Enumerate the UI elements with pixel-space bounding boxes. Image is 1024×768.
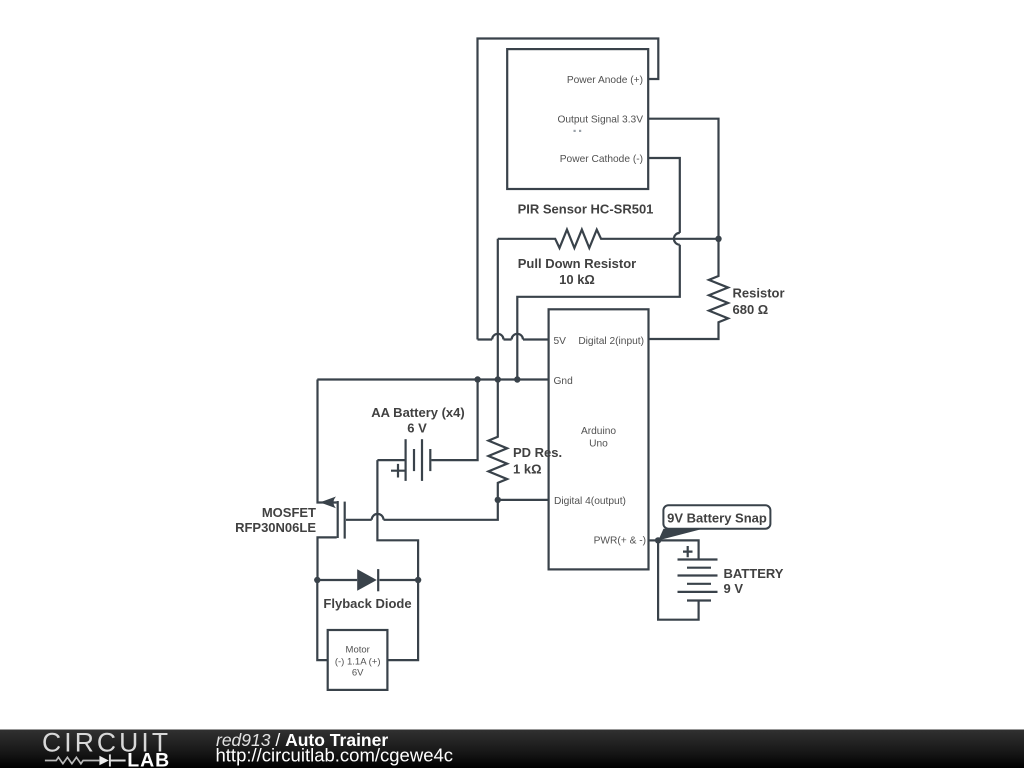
node flyback left [314,577,320,583]
svg-text:6 V: 6 V [407,421,427,436]
wire 5V row with hops [478,334,549,340]
wire Gnd row [317,378,548,380]
plus sign 9V battery [683,546,693,557]
node gnd/cathode junction [514,376,520,382]
svg-text:9 V: 9 V [724,581,744,596]
pin Power Cathode (-) [560,154,643,165]
node flyback right [415,577,421,583]
svg-text:1 kΩ: 1 kΩ [513,462,542,477]
svg-text:Power Cathode (-): Power Cathode (-) [560,154,643,165]
label BATTERY 9V [724,566,784,596]
svg-text:BATTERY: BATTERY [724,566,784,581]
artifact dots under output signal [574,130,582,132]
wire motor left leg [317,580,327,660]
svg-text:Arduino: Arduino [581,426,616,437]
wire Digital 4 to node [498,499,549,501]
resistor R pulldown 10k (horizontal) [498,230,719,248]
logo LAB [127,749,170,768]
callout 9V Battery Snap [658,505,770,540]
label Pull Down Resistor [518,256,636,287]
svg-text:PIR Sensor HC-SR501: PIR Sensor HC-SR501 [518,201,654,216]
svg-text:Power Anode (+): Power Anode (+) [567,75,643,86]
logo CIRCUIT [42,728,171,758]
pin Output Signal 3.3V [557,115,643,126]
svg-text:Motor: Motor [346,645,370,656]
label Flyback Diode [323,596,411,611]
label PIR Sensor HC-SR501 [518,201,654,216]
svg-text:Gnd: Gnd [554,376,574,387]
svg-text:AA Battery (x4): AA Battery (x4) [371,405,464,420]
svg-text:LAB: LAB [127,749,170,768]
wire Power Cathode to Gnd rail [517,158,680,380]
pin Digital 4(output) [554,496,626,507]
wire pulldown left leg down to Gnd [497,239,499,380]
plus sign AA battery [391,464,405,478]
label Resistor 680 [733,286,785,318]
footer title [216,730,454,765]
resistor R2 PD 1k (vertical) [488,380,507,500]
svg-text:6V: 6V [352,667,364,678]
pin Power Anode (+) [567,75,643,86]
label AA Battery [371,405,464,436]
node PWR junction [655,537,661,543]
svg-text:(-) 1.1A (+): (-) 1.1A (+) [335,657,381,668]
transistor Q1 MOSFET RFP30N06LE [318,380,345,581]
label Motor [335,645,381,679]
svg-text:680 Ω: 680 Ω [733,302,769,317]
svg-text:Flyback Diode: Flyback Diode [323,596,411,611]
svg-text:Output Signal 3.3V: Output Signal 3.3V [557,115,643,126]
node digital4/gate junction [495,497,501,503]
label MOSFET [235,505,316,535]
motor M1 box [328,630,388,690]
node junction output/pulldown [715,236,721,242]
wire PWR pin to node [649,539,659,541]
pin 5V [554,336,567,347]
svg-text:PD Res.: PD Res. [513,445,562,460]
wire Output Signal to node [648,119,718,239]
pin Gnd [554,376,574,387]
resistor R1 680 (vertical) [649,239,729,339]
svg-text:5V: 5V [554,336,567,347]
svg-text:RFP30N06LE: RFP30N06LE [235,520,316,535]
wire top loop from PIR Power Anode to left rail [478,39,659,340]
label Arduino Uno [581,426,616,449]
Arduino Uno box [549,309,649,569]
battery V2 9V [658,540,717,619]
svg-text:Uno: Uno [589,438,608,449]
svg-text:Resistor: Resistor [733,286,785,301]
svg-text:MOSFET: MOSFET [262,505,316,520]
PIR sensor box [507,49,648,189]
node gnd/pulldown junction [495,376,501,382]
svg-text:9V Battery Snap: 9V Battery Snap [667,511,767,526]
pin Digital 2(input) [578,336,644,347]
wire gate from node with hop over battery wire [346,500,498,520]
svg-text:Pull Down Resistor: Pull Down Resistor [518,256,636,271]
label PD Res 1k [513,445,562,477]
svg-text:Digital 2(input): Digital 2(input) [578,336,644,347]
battery V1 AA x4 [377,380,477,481]
svg-text:Digital 4(output): Digital 4(output) [554,496,626,507]
diode D1 flyback [317,569,418,591]
footer bar [0,730,1024,768]
node gnd/battery junction [474,376,480,382]
pin PWR(+ & -) [594,535,646,546]
logo squiggle resistor diode [45,754,126,766]
svg-text:http://circuitlab.com/cgewe4c: http://circuitlab.com/cgewe4c [216,744,454,765]
svg-text:PWR(+ & -): PWR(+ & -) [594,535,646,546]
wire battery plus down to motor right [377,460,418,660]
svg-text:10 kΩ: 10 kΩ [559,272,595,287]
